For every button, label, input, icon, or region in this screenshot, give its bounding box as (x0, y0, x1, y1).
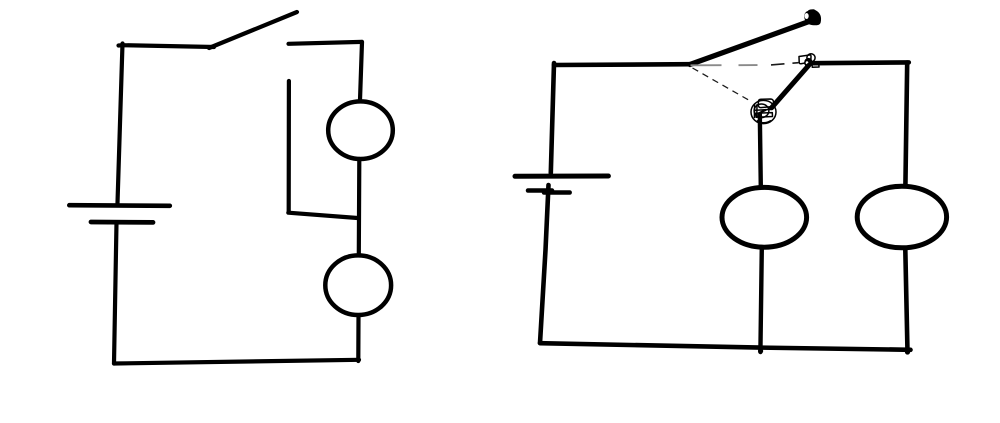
battery B1 long plate (69, 203, 170, 208)
wire right upper vertical (corner down to lamp L1) (360, 42, 362, 100)
inner branch horizontal to main vertical (288, 213, 357, 218)
contact A dark knot (804, 58, 813, 67)
contact A scribble (right) (799, 54, 819, 68)
middle vertical upper (contact B to lamp L3) (760, 114, 761, 187)
dashed guide (long dashes, gray part) pivot to right contact (691, 64, 758, 66)
top wire right part (contact A to top-right corner) (813, 60, 909, 65)
lamp L4 (857, 186, 946, 248)
bottom wire right circuit (540, 343, 911, 350)
dashed guide (short dashes) pivot to lower contact (693, 68, 751, 101)
contact B scribble (lower) (751, 99, 776, 124)
top wire (left corner to switch pivot) (554, 62, 691, 67)
wire left vertical lower (battery to bottom corner) (114, 223, 117, 364)
wire below L2 (356, 316, 360, 361)
middle vertical lower (L3 to bottom wire) (760, 248, 761, 352)
contact B dark squiggle (761, 110, 766, 112)
dashed guide (long dashes, dark part) near right contact (771, 63, 799, 65)
junction dot bottom-right (905, 349, 910, 354)
switch S1 lever (open) (209, 12, 297, 48)
junction dot bottom-middle (758, 348, 763, 353)
switch S2 lever (open position) (690, 22, 809, 65)
battery B2 short plate (528, 188, 552, 193)
left vertical lower (battery to bottom corner) (540, 185, 549, 343)
lever link (contact A to contact B) (772, 66, 809, 108)
battery B2 long plate (515, 174, 608, 179)
inner branch vertical (dangling) (287, 81, 291, 212)
left vertical upper (corner to battery B2) (551, 63, 554, 173)
wire top-right (switch right contact to top-right corner) (289, 42, 363, 44)
right vertical upper (corner to lamp L4) (905, 63, 907, 187)
lamp L2 (325, 255, 391, 315)
battery B1 short plate (91, 220, 153, 225)
lamp L3 (722, 187, 807, 247)
wire left vertical upper (top corner down to battery B1) (118, 44, 123, 204)
right vertical lower (L4 to bottom corner) (905, 249, 907, 352)
bottom wire left circuit (114, 360, 359, 364)
wire between L1 and L2 (357, 159, 362, 255)
wire top-left (battery top to switch pivot) (119, 45, 215, 47)
lamp L1 (328, 101, 393, 159)
lever tip blob (804, 9, 821, 25)
